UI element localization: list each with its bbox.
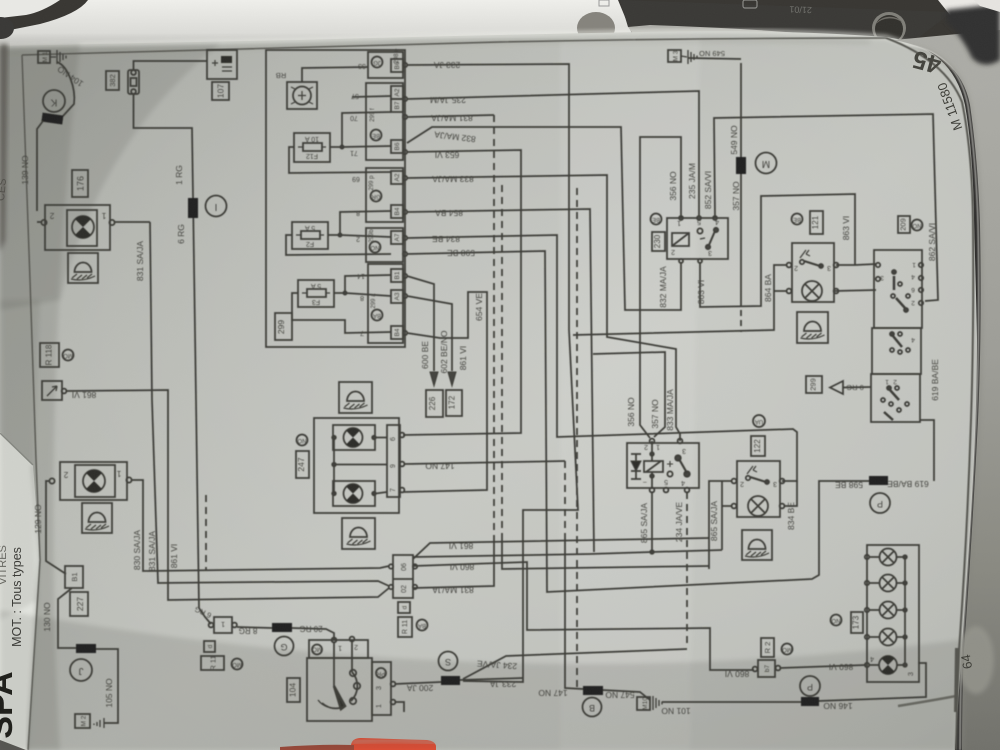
wire 147 NO: [404, 461, 565, 464]
switch K: [43, 90, 65, 112]
highlight on top page edge: [0, 31, 920, 48]
connector 299b: [366, 228, 407, 262]
wires F12 to pins 70 / 71: [330, 112, 391, 147]
wire 861 VI: [66, 390, 389, 600]
red object at bottom: [351, 738, 436, 750]
wire b7 to lamp cluster: [780, 665, 866, 668]
connector bar (black): [583, 686, 603, 695]
connector bar (black): [441, 676, 460, 685]
arrow down: [430, 372, 438, 386]
label 230: [652, 232, 665, 251]
headlamp switch 104: [307, 637, 395, 721]
box 172: [446, 390, 462, 416]
wire 834 BE: [407, 235, 797, 481]
wire 832 MA/JA: [407, 127, 681, 310]
switch-lamp unit 122: [732, 461, 785, 517]
wire 234 JA/VE diagonal: [463, 649, 687, 679]
wire 200 JA / 233 JA from switch: [395, 682, 441, 684]
box 226: [426, 390, 443, 417]
connector bar (black): [801, 697, 819, 706]
wire 600 BE to 226: [407, 276, 434, 371]
lamp unit left headlight (outer box): [45, 205, 110, 250]
wire 860 VI right bus: [413, 562, 754, 670]
wire RB to connector 298: [302, 67, 368, 82]
battery 107: [207, 50, 237, 79]
shading on left part of page: [0, 44, 80, 750]
wire 356 NO: [640, 137, 681, 438]
wire 1 RG / 6 RG: [134, 94, 212, 624]
fuse F2 5A: [292, 222, 328, 249]
relay fog lamps (bottom): [627, 439, 699, 493]
relay 230: [667, 216, 728, 263]
box 227: [70, 592, 88, 616]
connector d right: [398, 602, 410, 613]
relay box R118: [40, 343, 59, 367]
wire 852 SA/VI: [714, 114, 938, 301]
switch J: [70, 659, 92, 681]
lamp cluster 247 outer box: [314, 418, 399, 513]
wire 357 NO: [740, 63, 742, 300]
wire 833 MA/JA: [407, 175, 680, 441]
ground M1: [38, 50, 66, 64]
wire 130 NO to ground M2: [58, 588, 77, 648]
fog icon box below 247: [342, 518, 375, 549]
connector b7 + R2: [753, 660, 781, 677]
wire 861 VI right bus: [413, 538, 709, 559]
right pin column: [372, 662, 391, 715]
fuse link 382: [106, 71, 119, 90]
wire 653 VI: [403, 150, 521, 435]
wire 654 VE: [403, 292, 487, 492]
diode: [631, 454, 641, 479]
wires at 122: [709, 481, 797, 569]
off-page arrow 299 / 9 RG: [806, 376, 822, 393]
lamp symbol lower: [344, 484, 363, 503]
dark background wedge top-right corner: [946, 4, 1000, 65]
coil: [644, 461, 663, 472]
dashed riser unknown: [501, 185, 503, 540]
light switch comb 209: [871, 250, 923, 422]
fog icon box under 121: [797, 312, 828, 343]
connector 298e top: [368, 48, 407, 78]
wire 129 NO: [46, 481, 66, 574]
wire 830 SA/JA from fog lamp: [131, 480, 389, 571]
fog icon box under 122: [742, 530, 772, 560]
light sliver along page top on the right: [620, 0, 952, 44]
connector strip of 247: [387, 425, 400, 497]
stub from 104 lower pin: [395, 702, 404, 712]
lamp unit left fog (outer box): [60, 462, 127, 500]
wire 233 JA: [407, 64, 578, 682]
label 122: [751, 436, 765, 456]
dark bottom-left corner wedge: [0, 740, 26, 750]
vignette shading: [0, 610, 960, 750]
stub pin 57: [352, 96, 391, 97]
wire 831 SA/JA riser: [150, 222, 389, 586]
wire 235 JA/M: [407, 91, 699, 216]
motor M: [756, 153, 777, 174]
fog icon box left bottom: [82, 503, 112, 533]
switch I: [206, 196, 227, 217]
bus 146 NO to lamp cluster: [662, 663, 926, 702]
sensor with arrow: [42, 381, 66, 400]
upper lamp sub-box: [333, 425, 375, 450]
binder hole left partial: [0, 17, 14, 39]
inline connector near G: [209, 617, 237, 633]
label 209: [898, 216, 910, 233]
wire 864 BA: [573, 265, 787, 335]
bright band along page bulge: [560, 36, 700, 750]
wire 598 BE: [407, 251, 869, 592]
wire to switch 104: [237, 627, 272, 628]
bottom bus 147/547 NO to ground M10: [583, 689, 650, 700]
fuse F12 10A: [294, 133, 330, 162]
label 247: [296, 451, 309, 478]
lighter patch around 64: [958, 626, 994, 694]
wire 854 BA: [407, 209, 594, 552]
connector B1: [65, 566, 83, 588]
white torn corner top-left: [0, 0, 60, 18]
switch G: [275, 637, 294, 656]
connector 299p: [366, 168, 407, 222]
ground M2: [75, 714, 104, 728]
arrow down: [448, 372, 456, 386]
lamp symbol: [83, 470, 105, 492]
connector strip 06/02: [389, 555, 417, 598]
box 176: [72, 170, 88, 197]
dashed riser parallel to 233 JA: [576, 188, 578, 688]
left page strip under main page (bottom left): [0, 432, 40, 750]
wire 234 JA/VE dashed: [686, 492, 688, 648]
switch S: [439, 652, 458, 671]
wire F12 left to pin 69: [289, 147, 391, 173]
fuse F3 5A: [298, 280, 334, 307]
wire lamp1 to 831 SA/JA riser: [114, 221, 150, 223]
connector B: [583, 698, 602, 717]
wire to ground M2: [96, 649, 118, 723]
wires F2 to pins: [328, 211, 391, 237]
unit 299 outer box: [266, 50, 405, 347]
connector d + R 11 left: [204, 641, 215, 652]
connector P bottom: [800, 676, 820, 696]
connector P right: [870, 493, 890, 513]
switch-lamp unit 121: [787, 243, 839, 302]
wire 602 BE/NO to 172: [407, 296, 452, 371]
soft shadow under top edge: [0, 41, 870, 54]
fog icon box left top: [68, 253, 98, 283]
wire 382 to battery: [134, 61, 208, 70]
wires F3 to pins: [334, 275, 391, 296]
seam shadow along page edge: [910, 47, 981, 750]
connector bar (black) on RG wire: [188, 198, 198, 218]
five lamps: [869, 549, 907, 566]
binder hole 1: [577, 12, 615, 44]
ground M3: [668, 50, 741, 64]
ground M10: [637, 696, 662, 710]
dark page edge sliver top-left: [0, 44, 8, 252]
wire 831 MA/JA: [407, 115, 494, 117]
connector R 11 right: [398, 617, 412, 637]
wire 863 VI from relay: [700, 194, 876, 307]
wire M1 to K to connector: [57, 62, 74, 116]
lamp symbol upper: [344, 428, 363, 447]
binder hole 2: [872, 12, 906, 44]
connector 299f: [366, 83, 407, 160]
connector bar (black): [272, 623, 292, 632]
bus 865 SA/JA horizontal: [413, 550, 722, 557]
lamp cluster 173: [865, 545, 919, 682]
relay RB: [276, 71, 317, 109]
contact: [675, 455, 681, 461]
lamp symbol: [72, 216, 94, 238]
connector bar (black) on J wire: [76, 644, 96, 653]
label 173: [851, 612, 863, 633]
lamp in 121: [802, 281, 822, 301]
label 104: [287, 678, 300, 702]
dashed spur near 6RG wire: [205, 495, 207, 571]
wire 619 BA/BE riser: [920, 420, 934, 481]
rotary contact: [322, 672, 357, 708]
connector 299a: [368, 264, 407, 343]
connector bar (black) on 598/619 bus: [869, 476, 888, 485]
connector bar (black) on 549/357 wire: [736, 157, 746, 174]
internal bus of 247: [334, 438, 387, 494]
fog icon box above 247: [339, 382, 372, 413]
white paper wedge top-right: [938, 0, 1000, 40]
wire bar to lamp 1: [37, 121, 43, 222]
white paper strip of page behind along the top: [0, 0, 632, 47]
label 121: [810, 211, 823, 234]
lower lamp sub-box: [333, 481, 375, 506]
faint print on upper strip: [743, 0, 757, 8]
dark table top band: [0, 0, 1000, 70]
wire 865 SA/JA from relay: [651, 492, 653, 552]
connector bar (black): [41, 113, 63, 125]
